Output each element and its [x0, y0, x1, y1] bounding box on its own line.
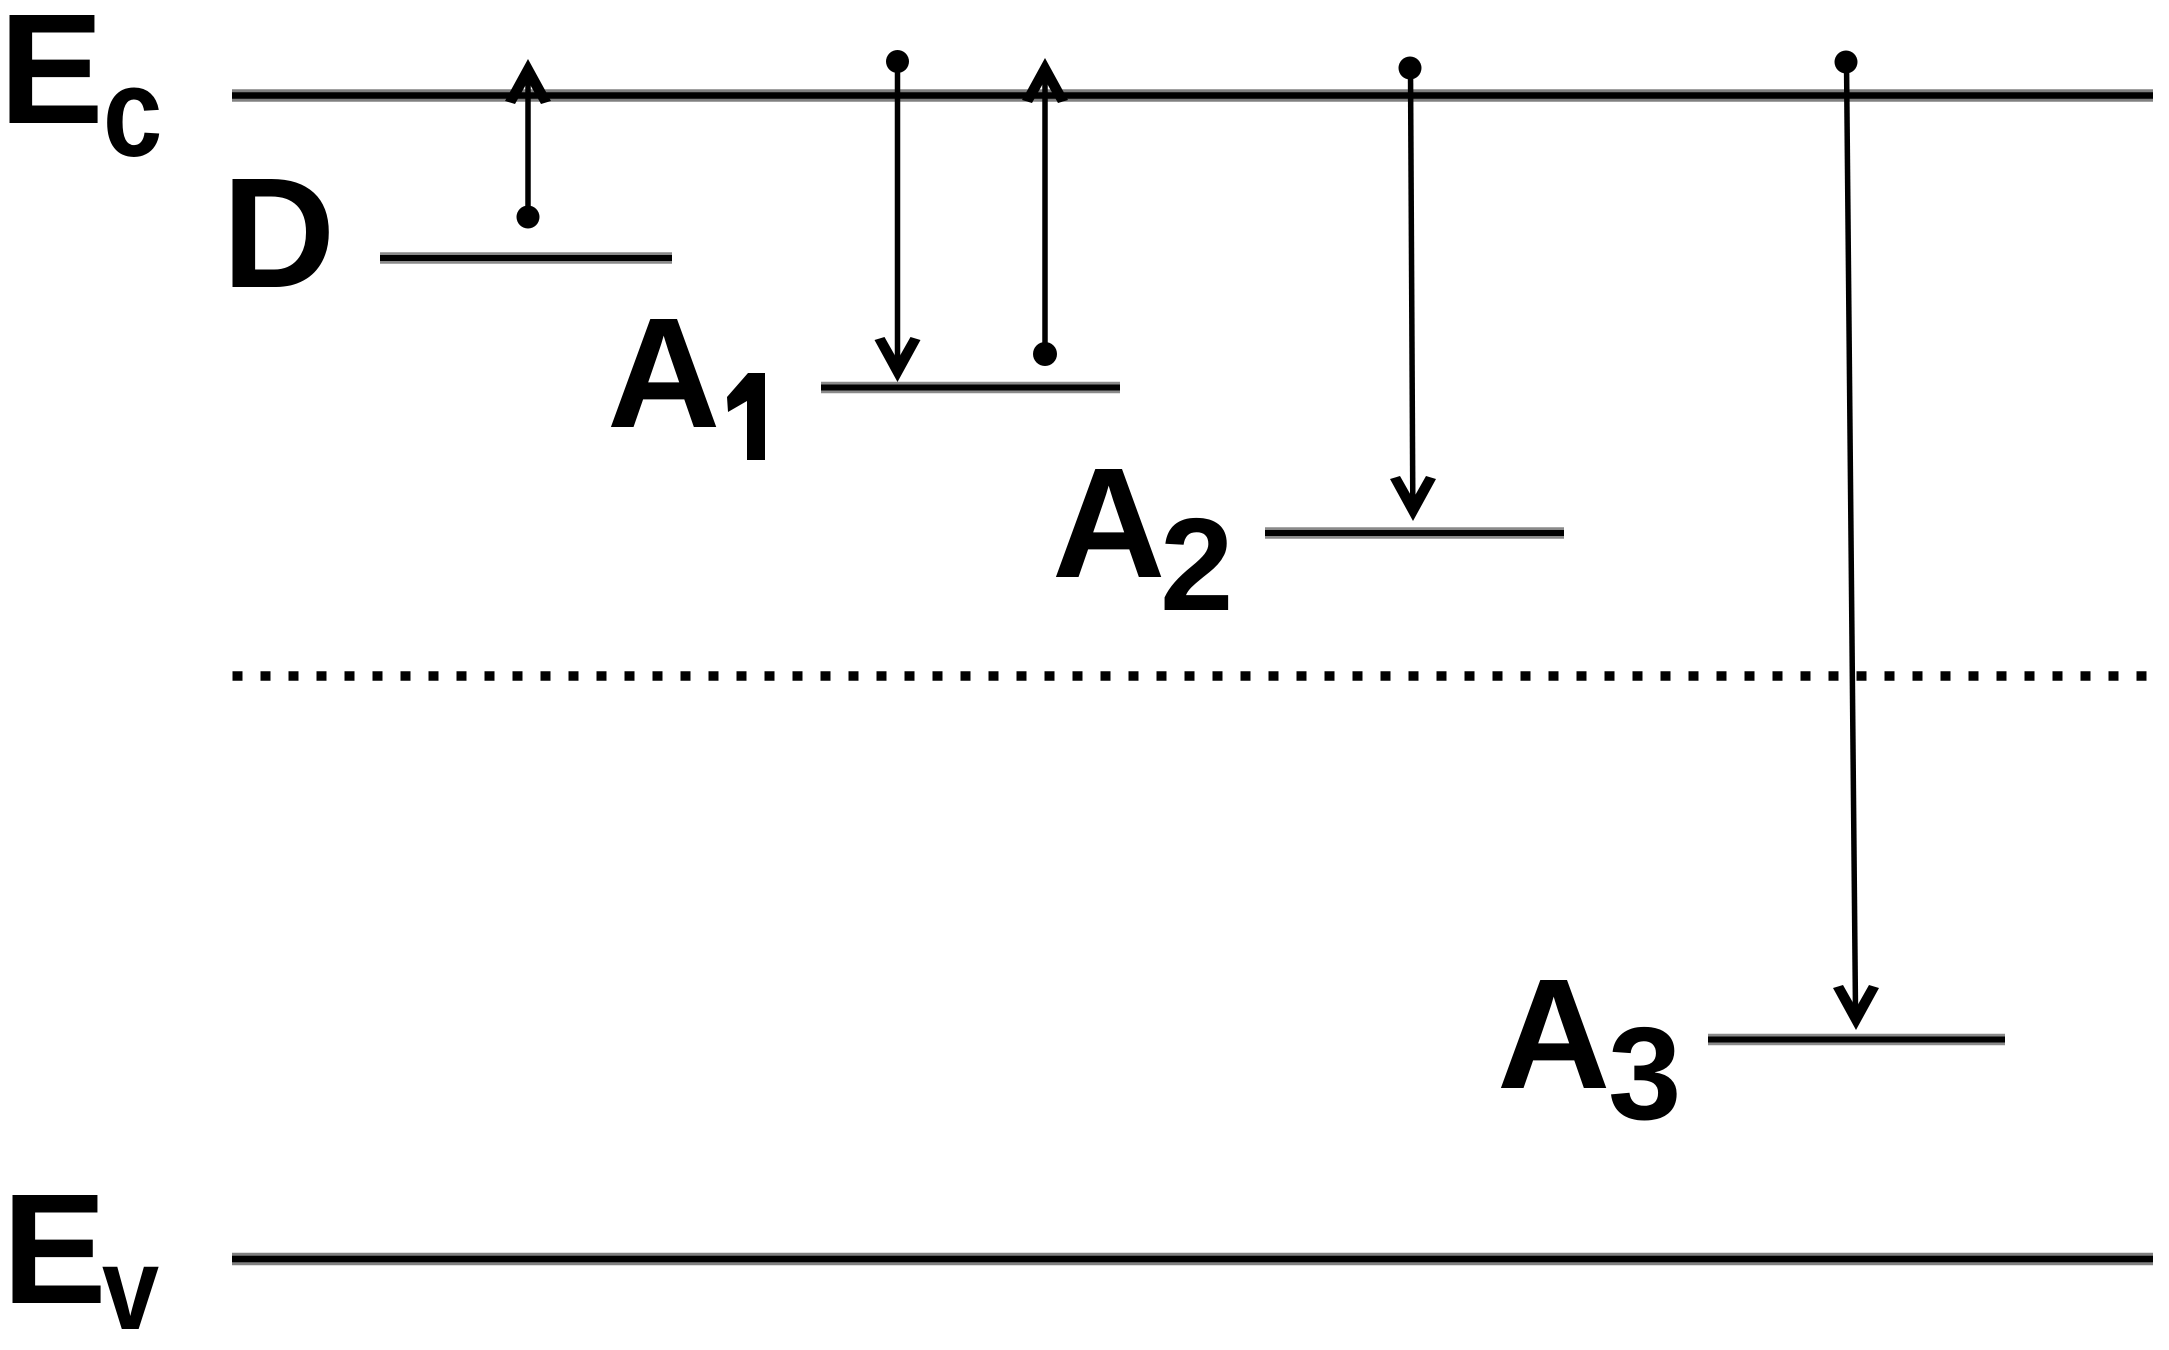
- svg-text:c: c: [103, 41, 162, 183]
- svg-text:3: 3: [1608, 1000, 1681, 1147]
- svg-text:A: A: [1052, 436, 1165, 611]
- arrow A1 to Ec (emission, up): [1022, 58, 1068, 366]
- dotted mid-gap line: [233, 671, 2154, 681]
- arrow D to Ec (donor ionization, up): [505, 59, 551, 229]
- label A3: [1497, 947, 1681, 1147]
- donor level D line: [380, 252, 672, 264]
- label A2: [1052, 436, 1233, 638]
- acceptor level A3 line: [1708, 1034, 2005, 1046]
- svg-text:A: A: [1497, 947, 1610, 1122]
- svg-text:D: D: [222, 146, 335, 321]
- valence band line Ev: [232, 1253, 2153, 1266]
- svg-text:A: A: [607, 286, 720, 461]
- svg-text:2: 2: [1160, 491, 1233, 638]
- arrow Ec to A1 (capture, down): [875, 50, 921, 382]
- label A1: [607, 286, 765, 461]
- svg-text:E: E: [0, 0, 104, 157]
- label Ev: [2, 1162, 160, 1350]
- svg-text:v: v: [102, 1223, 160, 1350]
- label Ec: [0, 0, 162, 183]
- acceptor level A1 line: [821, 382, 1120, 394]
- acceptor level A2 line: [1265, 527, 1564, 539]
- arrow Ec to A2 (capture, down): [1390, 57, 1436, 522]
- svg-text:E: E: [2, 1162, 107, 1337]
- conduction band line Ec: [232, 89, 2153, 102]
- long arrow Ec to A3 (capture, down): [1833, 51, 1879, 1031]
